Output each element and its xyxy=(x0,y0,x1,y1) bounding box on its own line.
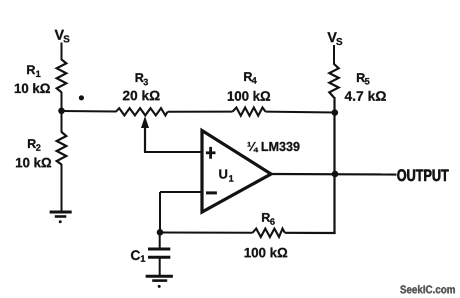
label R6 value 100 kOhm xyxy=(245,248,288,258)
wire R5 down right rail xyxy=(333,97,335,234)
wire minus input xyxy=(160,191,202,193)
label R2 value 10 kOhm xyxy=(16,158,51,168)
label R4 value 100 kOhm xyxy=(228,91,270,101)
label R6 xyxy=(262,213,275,225)
supply Vs left label xyxy=(55,30,70,43)
wire node A to R3 xyxy=(62,110,117,113)
wire Vs-left lead xyxy=(61,43,63,61)
label R5 xyxy=(357,73,370,84)
node C junction dot xyxy=(157,229,164,236)
supply Vs right label xyxy=(327,32,342,45)
resistor R2 xyxy=(57,132,67,165)
wire node C down to C1 xyxy=(159,232,161,248)
ground (below C1) xyxy=(146,276,173,288)
label R1 value 10 kOhm xyxy=(15,83,50,93)
label R5 value 4.7 kOhm xyxy=(345,91,386,101)
wiper arrow of R3 xyxy=(141,116,149,152)
label OUTPUT xyxy=(397,169,448,181)
watermark SeekIC.com xyxy=(400,285,455,293)
label R3 value 20 kOhm xyxy=(123,90,160,100)
resistor R6 xyxy=(253,229,285,237)
wire wiper to plus input xyxy=(144,151,202,153)
wire Vs-right lead xyxy=(333,45,335,65)
node D junction dot on output xyxy=(332,171,339,178)
node A junction dot xyxy=(58,108,65,115)
label R2 xyxy=(28,139,41,151)
op-amp minus sign xyxy=(206,191,217,194)
wire R3 to R4 xyxy=(168,111,233,113)
label C1 xyxy=(131,250,145,261)
label R1 xyxy=(27,65,40,77)
node B junction dot xyxy=(332,109,339,116)
resistor R1 xyxy=(57,60,67,93)
wire R1 to node A xyxy=(61,92,63,112)
capacitor C1 xyxy=(148,249,170,257)
ground (left, below R2) xyxy=(50,212,72,223)
wire node A down to R2 xyxy=(61,111,63,133)
wire C1 to ground xyxy=(159,258,161,275)
wire R4 to node B xyxy=(266,111,336,114)
label R4 xyxy=(244,72,257,83)
wire R6 to right rail xyxy=(285,232,336,234)
wire minus input down to node C xyxy=(159,192,161,233)
resistor R5 xyxy=(329,64,338,98)
resistor R4 xyxy=(233,108,266,116)
op-amp plus sign xyxy=(206,147,216,159)
wire output xyxy=(270,173,397,176)
label R3 xyxy=(136,73,148,85)
op-amp U1 xyxy=(202,131,271,213)
label 1/4 LM339 xyxy=(248,142,300,152)
stray dot mark xyxy=(79,95,84,100)
wire R2 to ground xyxy=(61,164,63,212)
wire node C to R6 xyxy=(160,232,253,234)
label U1 xyxy=(219,170,233,182)
resistor R3 (potentiometer) xyxy=(116,108,168,115)
